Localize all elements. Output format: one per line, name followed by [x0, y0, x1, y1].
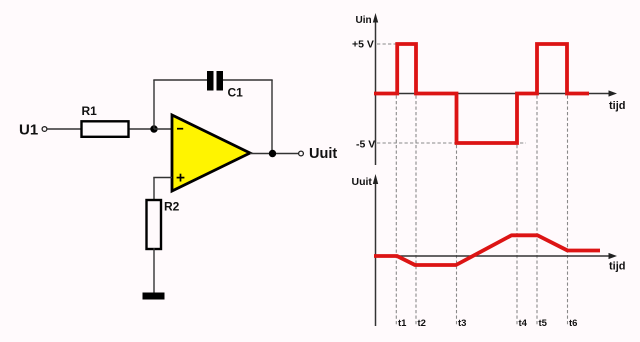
axis Uin vertical	[373, 13, 378, 165]
wire node A to op-amp inverting input	[154, 128, 172, 130]
wire non-inverting input horizontal	[153, 177, 172, 179]
svg-text:t6: t6	[569, 318, 577, 329]
axis Uuit vertical	[373, 174, 378, 326]
dashed vertical t4	[516, 145, 518, 326]
svg-text:Uin: Uin	[356, 15, 372, 26]
op-amp U2	[172, 115, 250, 191]
op-amp plus input mark	[177, 177, 185, 179]
svg-text:C1: C1	[228, 86, 244, 100]
dashed vertical t5	[536, 96, 538, 327]
svg-text:R1: R1	[82, 104, 98, 118]
dashed guide +5V	[377, 43, 396, 45]
svg-text:tijd: tijd	[609, 100, 626, 112]
resistor R1	[82, 121, 129, 137]
dashed guide -5V	[377, 142, 526, 144]
dashed vertical t3	[456, 145, 458, 326]
svg-text:+5 V: +5 V	[352, 39, 374, 51]
svg-text:Uuit: Uuit	[309, 146, 337, 162]
wire feedback top right segment	[223, 79, 273, 81]
op-amp minus input mark	[177, 128, 183, 130]
svg-text:t5: t5	[539, 318, 548, 329]
ground	[143, 293, 165, 300]
output terminal	[299, 151, 304, 156]
input terminal U1	[42, 127, 47, 132]
svg-text:tijd: tijd	[609, 261, 626, 273]
dashed vertical t2	[415, 96, 417, 327]
svg-text:t4: t4	[519, 318, 528, 329]
node output junction dot	[269, 150, 276, 157]
waveform Uuit	[374, 235, 600, 265]
svg-text:R2: R2	[164, 200, 180, 214]
wire feedback top left segment	[153, 79, 207, 81]
axis tijd horizontal top	[376, 90, 618, 96]
wire op-amp output	[250, 153, 299, 155]
svg-text:t1: t1	[398, 318, 407, 329]
wire feedback right vertical	[271, 80, 273, 154]
axis tijd horizontal bottom	[376, 253, 618, 259]
svg-text:t2: t2	[418, 318, 426, 329]
waveform Uin	[374, 44, 589, 143]
wire R1 to node A	[130, 128, 155, 130]
svg-text:-5 V: -5 V	[356, 138, 375, 150]
capacitor C1	[207, 71, 223, 91]
wire input to R1	[47, 128, 81, 130]
svg-text:U1: U1	[19, 122, 38, 139]
node A junction dot	[150, 125, 157, 132]
wire feedback left vertical	[153, 80, 155, 129]
resistor R2	[147, 200, 162, 249]
svg-text:Uuit: Uuit	[352, 176, 373, 188]
dashed vertical t6	[567, 96, 569, 327]
dashed vertical t1	[395, 96, 397, 327]
svg-text:t3: t3	[458, 318, 466, 329]
wire R2 to ground	[153, 248, 155, 293]
wire non-inverting vertical to R2	[153, 178, 155, 201]
